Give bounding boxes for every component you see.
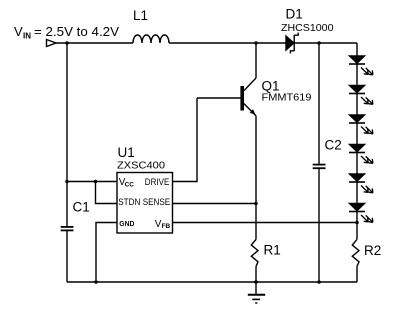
wire R2 bottom lead bbox=[356, 266, 358, 282]
svg-text:SENSE: SENSE bbox=[143, 197, 171, 208]
svg-text:R1: R1 bbox=[264, 243, 281, 258]
wire bottom rail bbox=[67, 281, 357, 283]
wire DRIVE bbox=[173, 98, 198, 182]
node VIN junction bbox=[65, 41, 69, 45]
wire top rail middle bbox=[169, 42, 286, 44]
wire STDN bbox=[96, 182, 118, 204]
node LED string FB junction bbox=[355, 221, 359, 225]
LED D2 bbox=[349, 56, 373, 86]
wire top rail left bbox=[56, 42, 133, 44]
node collector junction bbox=[254, 41, 258, 45]
svg-text:IN: IN bbox=[23, 32, 31, 41]
ground bbox=[248, 282, 265, 303]
wire SENSE bbox=[173, 203, 257, 205]
svg-text:FB: FB bbox=[162, 223, 171, 230]
wire LED column top bbox=[356, 43, 358, 56]
label VIN bbox=[14, 24, 119, 41]
wire Q1 emitter bbox=[255, 116, 257, 204]
resistor R2 bbox=[352, 239, 359, 266]
wire R1 bottom lead bbox=[255, 266, 257, 282]
wire C2 top lead bbox=[318, 43, 320, 164]
node VCC junction bbox=[65, 180, 69, 184]
wire VCC bbox=[67, 181, 117, 183]
node C2 top junction bbox=[317, 41, 321, 45]
input terminal VIN bbox=[47, 40, 57, 47]
node C2 bottom junction bbox=[317, 280, 321, 284]
capacitor C2 bbox=[313, 165, 326, 169]
svg-text:DRIVE: DRIVE bbox=[145, 177, 170, 188]
wire Q1 base bbox=[197, 97, 240, 99]
svg-text:D1: D1 bbox=[286, 7, 303, 22]
wire C2 bottom lead bbox=[318, 169, 320, 282]
LED D3 bbox=[349, 86, 373, 116]
svg-text:ZXSC400: ZXSC400 bbox=[117, 160, 165, 172]
resistor R1 bbox=[251, 239, 258, 266]
capacitor C1 bbox=[61, 227, 74, 231]
LED D5 bbox=[349, 145, 373, 175]
wire C1 bottom lead bbox=[66, 231, 68, 282]
svg-text:C1: C1 bbox=[73, 200, 90, 215]
transistor Q1 bbox=[242, 78, 256, 116]
inductor L1 bbox=[133, 35, 169, 43]
svg-text:R2: R2 bbox=[364, 243, 381, 258]
pin VCC bbox=[119, 177, 134, 189]
svg-text:C2: C2 bbox=[325, 138, 342, 153]
svg-text:= 2.5V to 4.2V: = 2.5V to 4.2V bbox=[34, 24, 119, 39]
wire R2 top lead bbox=[356, 223, 358, 240]
diode D1 bbox=[286, 33, 298, 54]
LED D7 bbox=[349, 204, 373, 223]
pin VFB bbox=[155, 219, 171, 230]
svg-text:STDN: STDN bbox=[118, 197, 140, 208]
wire GND bbox=[96, 223, 117, 283]
wire top rail right bbox=[294, 42, 357, 44]
wire R1 top lead bbox=[255, 204, 257, 240]
svg-text:CC: CC bbox=[125, 181, 135, 188]
node STDN branch junction bbox=[94, 180, 98, 184]
wire FB bbox=[173, 222, 358, 224]
wire Q1 collector bbox=[255, 43, 257, 78]
svg-text:L1: L1 bbox=[133, 8, 148, 23]
svg-text:ZHCS1000: ZHCS1000 bbox=[281, 22, 334, 34]
node R1 ground junction bbox=[254, 280, 258, 284]
IC U1 bbox=[117, 173, 173, 234]
svg-text:FMMT619: FMMT619 bbox=[262, 92, 312, 104]
wire VIN column bbox=[66, 43, 68, 226]
svg-text:GND: GND bbox=[119, 219, 134, 228]
node GND wire junction bbox=[94, 280, 98, 284]
node SENSE emitter junction bbox=[254, 202, 258, 206]
svg-text:U1: U1 bbox=[118, 145, 135, 160]
LED D4 bbox=[349, 115, 373, 145]
LED D6 bbox=[349, 174, 373, 204]
svg-text:V: V bbox=[14, 24, 23, 39]
